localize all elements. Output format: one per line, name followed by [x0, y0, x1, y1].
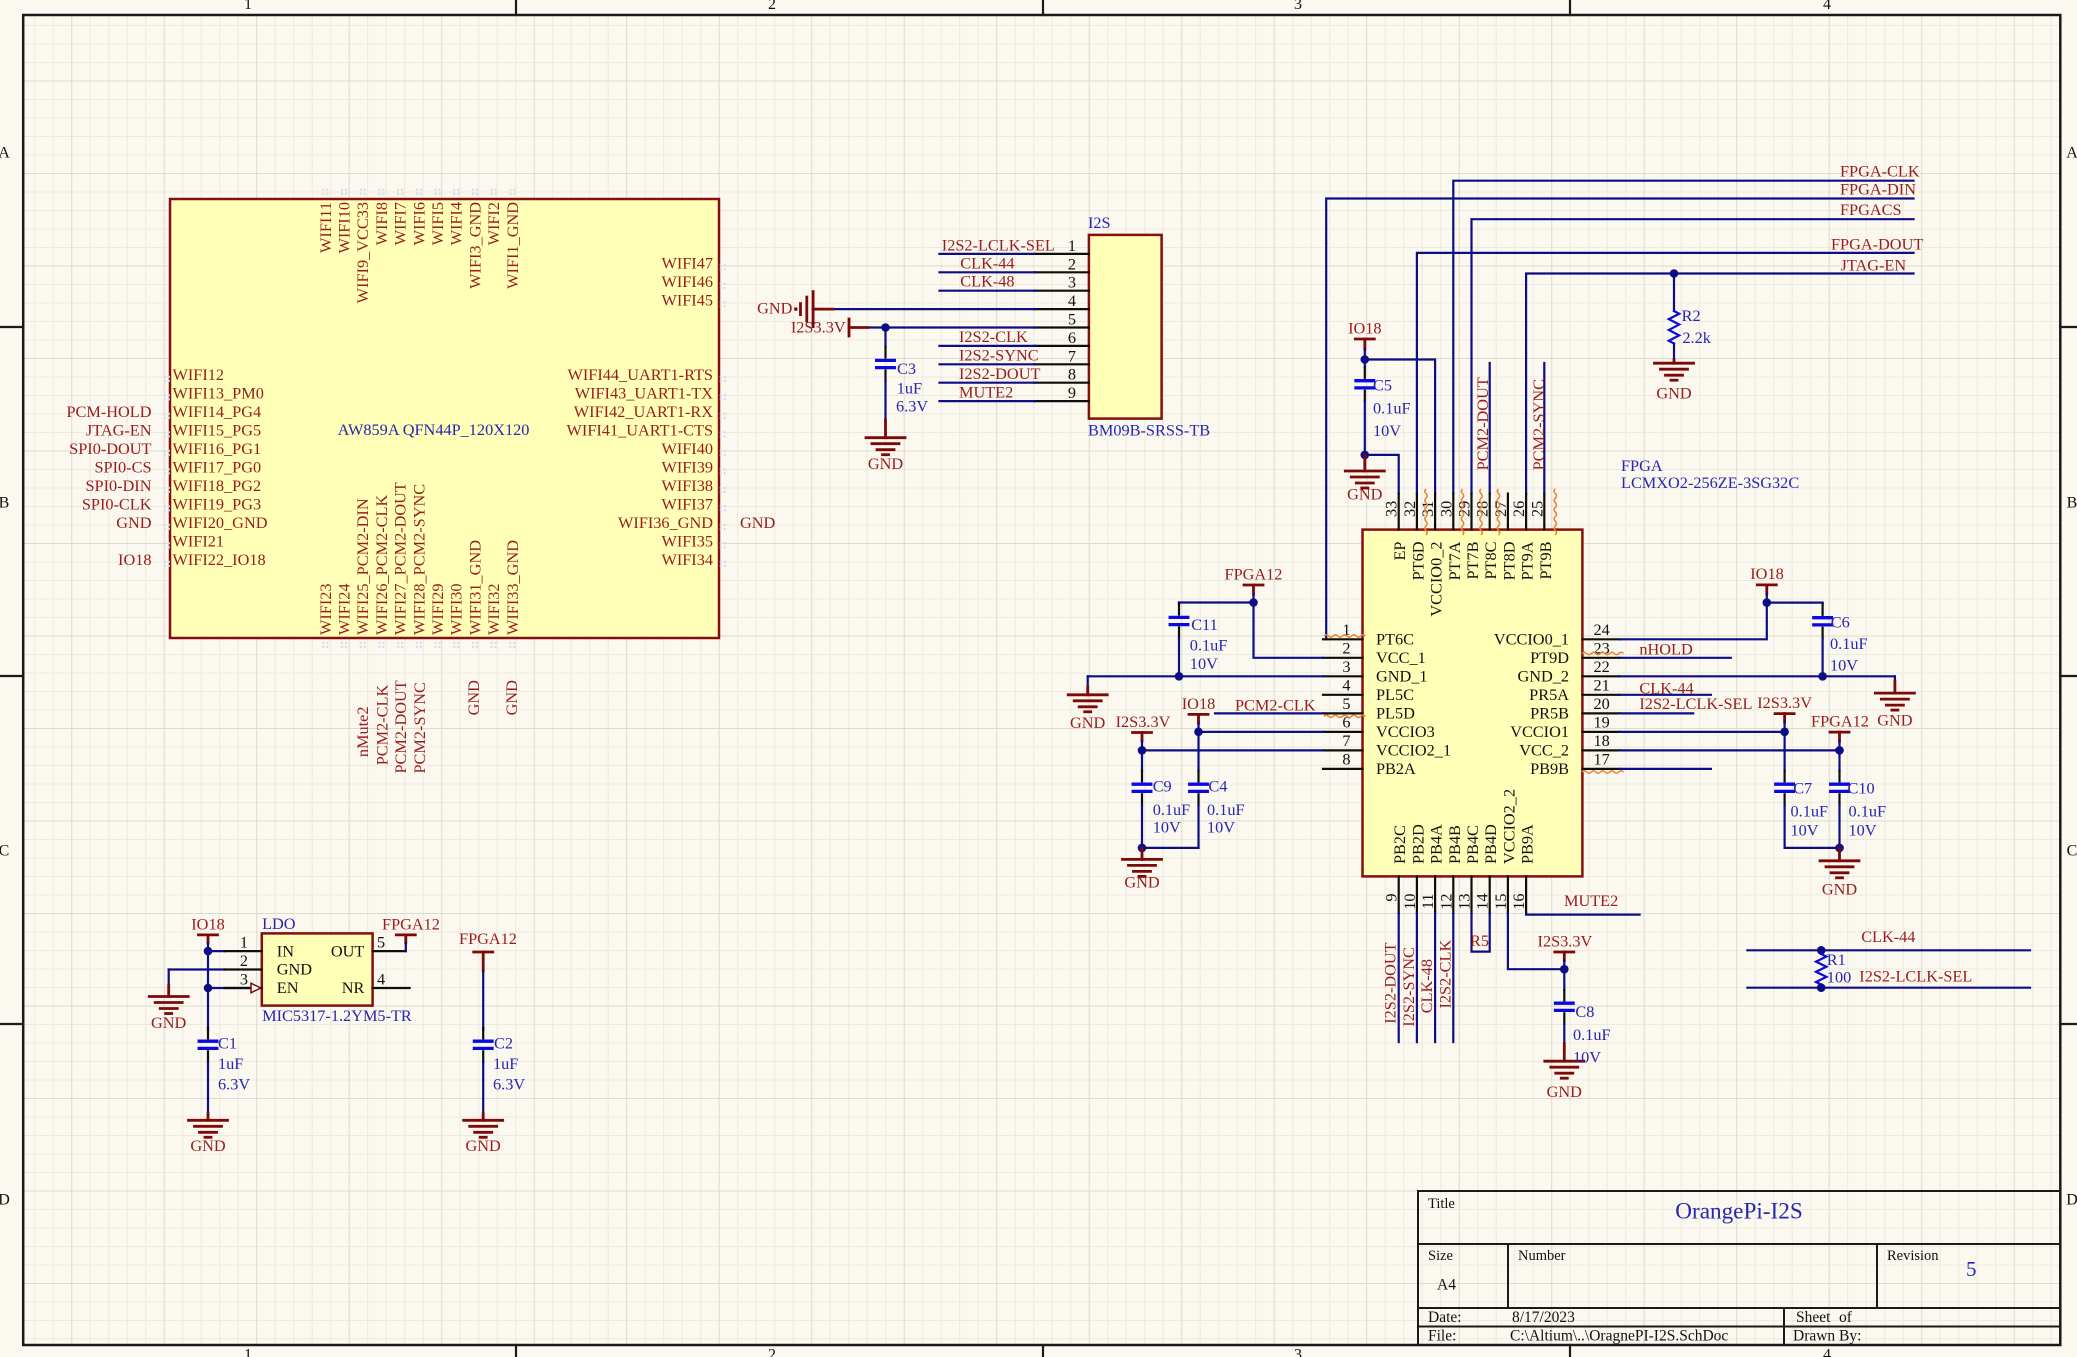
svg-text:10V: 10V: [1573, 1048, 1601, 1067]
svg-text:PT9B: PT9B: [1536, 541, 1555, 579]
svg-text:C5: C5: [1373, 376, 1392, 395]
svg-text:C3: C3: [897, 359, 916, 378]
svg-text:9: 9: [1068, 383, 1076, 402]
svg-text:0.1uF: 0.1uF: [1373, 399, 1411, 418]
svg-text:CLK-44: CLK-44: [960, 253, 1014, 272]
svg-text:PL5C: PL5C: [1376, 685, 1414, 704]
svg-text:1uF: 1uF: [218, 1054, 243, 1073]
svg-text:0.1uF: 0.1uF: [1190, 636, 1228, 655]
svg-text:I2S2-DOUT: I2S2-DOUT: [1381, 942, 1400, 1023]
svg-text:FPGA-DIN: FPGA-DIN: [1840, 179, 1916, 198]
svg-text:PCM2-DOUT: PCM2-DOUT: [1473, 377, 1492, 470]
svg-text:1uF: 1uF: [493, 1054, 518, 1073]
svg-text:26: 26: [1509, 501, 1528, 517]
svg-text:GND: GND: [116, 513, 152, 532]
svg-text:C6: C6: [1831, 613, 1850, 632]
svg-text:WIFI46: WIFI46: [661, 272, 713, 291]
svg-text:3: 3: [240, 970, 248, 989]
svg-text:WIFI44_UART1-RTS: WIFI44_UART1-RTS: [568, 365, 713, 384]
svg-text:nHOLD: nHOLD: [1639, 639, 1693, 658]
svg-text:I2S3.3V: I2S3.3V: [1538, 932, 1593, 951]
svg-text:WIFI27_PCM2-DOUT: WIFI27_PCM2-DOUT: [391, 482, 410, 635]
svg-text:WIFI6: WIFI6: [409, 202, 428, 245]
svg-text:30: 30: [1436, 501, 1455, 517]
svg-text:I2S3.3V: I2S3.3V: [1757, 693, 1812, 712]
svg-text:SPI0-DOUT: SPI0-DOUT: [69, 439, 151, 458]
svg-text:R5: R5: [1470, 931, 1489, 950]
svg-text:WIFI47: WIFI47: [661, 254, 713, 273]
svg-text:10V: 10V: [1849, 821, 1877, 840]
svg-text:1: 1: [1068, 236, 1076, 255]
svg-text:6.3V: 6.3V: [896, 397, 928, 416]
svg-text:C4: C4: [1208, 777, 1227, 796]
svg-text:GND: GND: [151, 1013, 187, 1032]
svg-text:MUTE2: MUTE2: [1564, 891, 1618, 910]
svg-text:1: 1: [244, 1347, 252, 1357]
svg-text:PCM2-CLK: PCM2-CLK: [373, 685, 392, 766]
svg-text:6: 6: [1068, 328, 1076, 347]
svg-text:A: A: [2066, 145, 2077, 162]
svg-text:IO18: IO18: [1750, 564, 1783, 583]
svg-text:5: 5: [377, 933, 385, 952]
svg-text:GND: GND: [740, 513, 776, 532]
svg-text:33: 33: [1382, 501, 1401, 517]
svg-text:R1: R1: [1827, 950, 1846, 969]
svg-text:WIFI5: WIFI5: [428, 202, 447, 245]
svg-text:Revision: Revision: [1887, 1248, 1939, 1264]
svg-text:nMute2: nMute2: [353, 706, 372, 757]
svg-text:1uF: 1uF: [897, 378, 922, 397]
svg-text:2: 2: [1068, 254, 1076, 273]
svg-text:CLK-44: CLK-44: [1861, 927, 1915, 946]
svg-text:File:: File:: [1428, 1328, 1456, 1345]
svg-text:GND: GND: [1347, 485, 1383, 504]
svg-text:IO18: IO18: [1348, 319, 1381, 338]
svg-text:WIFI39: WIFI39: [661, 458, 713, 477]
svg-text:PB4A: PB4A: [1427, 824, 1446, 864]
svg-text:PT8C: PT8C: [1481, 542, 1500, 580]
svg-text:8/17/2023: 8/17/2023: [1512, 1309, 1575, 1326]
svg-text:C8: C8: [1575, 1002, 1594, 1021]
svg-text:I2S2-SYNC: I2S2-SYNC: [1399, 947, 1418, 1027]
svg-text:6.3V: 6.3V: [218, 1075, 250, 1094]
svg-text:C10: C10: [1848, 779, 1875, 798]
svg-text:Drawn By:: Drawn By:: [1793, 1328, 1861, 1345]
svg-text:JTAG-EN: JTAG-EN: [1841, 256, 1907, 275]
svg-text:GND: GND: [1877, 711, 1913, 730]
svg-text:B: B: [2067, 495, 2077, 512]
svg-text:8: 8: [1068, 365, 1076, 384]
svg-text:I2S2-SYNC: I2S2-SYNC: [959, 346, 1039, 365]
svg-text:LCMXO2-256ZE-3SG32C: LCMXO2-256ZE-3SG32C: [1621, 473, 1799, 492]
svg-text:PB9A: PB9A: [1518, 824, 1537, 864]
svg-text:10V: 10V: [1190, 654, 1218, 673]
svg-text:PCM2-SYNC: PCM2-SYNC: [1529, 379, 1548, 470]
svg-text:WIFI45: WIFI45: [661, 291, 713, 310]
svg-text:WIFI31_GND: WIFI31_GND: [465, 540, 484, 635]
svg-text:MUTE2: MUTE2: [959, 382, 1013, 401]
svg-text:SPI0-DIN: SPI0-DIN: [85, 476, 151, 495]
svg-text:0.1uF: 0.1uF: [1573, 1025, 1611, 1044]
svg-text:I2S3.3V: I2S3.3V: [791, 317, 846, 336]
svg-text:4: 4: [1823, 1347, 1831, 1357]
svg-text:WIFI26_PCM2-CLK: WIFI26_PCM2-CLK: [372, 495, 391, 635]
svg-text:PCM2-CLK: PCM2-CLK: [1235, 696, 1316, 715]
svg-text:4: 4: [1068, 291, 1076, 310]
svg-text:3: 3: [1068, 273, 1076, 292]
svg-text:A: A: [0, 145, 10, 162]
svg-text:16: 16: [1509, 894, 1528, 910]
svg-text:A4: A4: [1437, 1277, 1456, 1294]
svg-text:WIFI33_GND: WIFI33_GND: [503, 540, 522, 635]
svg-text:WIFI37: WIFI37: [661, 495, 713, 514]
svg-text:2: 2: [1342, 638, 1350, 657]
svg-text:PT9D: PT9D: [1530, 648, 1569, 667]
svg-text:FPGA12: FPGA12: [382, 915, 440, 934]
svg-text:11: 11: [1418, 894, 1437, 910]
svg-text:PL5D: PL5D: [1376, 704, 1415, 723]
svg-text:22: 22: [1594, 657, 1610, 676]
svg-text:of: of: [1839, 1309, 1853, 1326]
svg-text:WIFI12: WIFI12: [173, 365, 225, 384]
svg-text:FPGACS: FPGACS: [1840, 200, 1902, 219]
svg-text:5: 5: [1342, 694, 1350, 713]
svg-text:WIFI9_VCC33: WIFI9_VCC33: [353, 202, 372, 303]
svg-text:3: 3: [1342, 657, 1350, 676]
svg-text:GND: GND: [1547, 1082, 1583, 1101]
svg-text:I2S2-CLK: I2S2-CLK: [1435, 940, 1454, 1009]
svg-text:EN: EN: [277, 978, 299, 997]
svg-text:10V: 10V: [1153, 818, 1181, 837]
svg-text:WIFI11: WIFI11: [316, 202, 335, 253]
svg-text:WIFI20_GND: WIFI20_GND: [173, 513, 268, 532]
svg-text:PCM-HOLD: PCM-HOLD: [66, 402, 151, 421]
svg-text:2: 2: [768, 1347, 776, 1357]
svg-text:7: 7: [1068, 346, 1076, 365]
svg-text:PB4C: PB4C: [1463, 825, 1482, 864]
svg-text:PB9B: PB9B: [1530, 759, 1569, 778]
svg-text:0.1uF: 0.1uF: [1849, 802, 1887, 821]
svg-text:Sheet: Sheet: [1796, 1309, 1831, 1326]
svg-text:GND_2: GND_2: [1517, 667, 1569, 686]
svg-text:0.1uF: 0.1uF: [1153, 800, 1191, 819]
svg-text:9: 9: [1382, 894, 1401, 902]
svg-text:0.1uF: 0.1uF: [1830, 634, 1868, 653]
svg-text:8: 8: [1342, 749, 1350, 768]
svg-text:WIFI36_GND: WIFI36_GND: [618, 513, 713, 532]
svg-text:10V: 10V: [1791, 821, 1819, 840]
svg-text:WIFI16_PG1: WIFI16_PG1: [173, 439, 262, 458]
svg-text:EP: EP: [1390, 542, 1409, 561]
svg-text:WIFI19_PG3: WIFI19_PG3: [173, 495, 262, 514]
svg-text:GND: GND: [190, 1136, 226, 1155]
svg-text:2.2k: 2.2k: [1682, 328, 1711, 347]
svg-text:OrangePi-I2S: OrangePi-I2S: [1675, 1199, 1803, 1225]
svg-text:3: 3: [1294, 1347, 1302, 1357]
svg-text:Title: Title: [1428, 1196, 1455, 1212]
svg-text:20: 20: [1594, 694, 1610, 713]
svg-text:WIFI15_PG5: WIFI15_PG5: [173, 421, 262, 440]
svg-text:19: 19: [1594, 712, 1610, 731]
svg-text:PB4B: PB4B: [1445, 825, 1464, 864]
svg-text:I2S2-CLK: I2S2-CLK: [959, 327, 1028, 346]
svg-text:WIFI42_UART1-RX: WIFI42_UART1-RX: [574, 402, 713, 421]
svg-text:10V: 10V: [1373, 421, 1401, 440]
svg-text:WIFI25_PCM2-DIN: WIFI25_PCM2-DIN: [353, 498, 372, 635]
svg-text:PT6D: PT6D: [1408, 541, 1427, 580]
svg-text:AW859A QFN44P_120X120: AW859A QFN44P_120X120: [338, 420, 530, 439]
svg-text:C9: C9: [1153, 777, 1172, 796]
svg-text:10V: 10V: [1207, 818, 1235, 837]
svg-text:VCC_2: VCC_2: [1519, 741, 1569, 760]
svg-text:3: 3: [1294, 0, 1302, 13]
svg-text:VCCIO0_1: VCCIO0_1: [1494, 630, 1569, 649]
svg-text:FPGA12: FPGA12: [1811, 712, 1869, 731]
svg-text:PCM2-SYNC: PCM2-SYNC: [410, 682, 429, 773]
svg-text:VCCIO1: VCCIO1: [1510, 722, 1569, 741]
svg-text:VCCIO0_2: VCCIO0_2: [1427, 542, 1446, 617]
svg-text:17: 17: [1594, 749, 1610, 768]
svg-text:WIFI34: WIFI34: [661, 550, 713, 569]
svg-text:C: C: [2067, 843, 2077, 860]
svg-text:VCCIO3: VCCIO3: [1376, 722, 1435, 741]
svg-text:6.3V: 6.3V: [493, 1075, 525, 1094]
svg-text:WIFI21: WIFI21: [173, 532, 225, 551]
svg-text:SPI0-CLK: SPI0-CLK: [82, 495, 152, 514]
svg-text:PT7A: PT7A: [1445, 541, 1464, 580]
svg-text:100: 100: [1827, 967, 1851, 986]
svg-text:WIFI41_UART1-CTS: WIFI41_UART1-CTS: [567, 421, 713, 440]
svg-text:I2S3.3V: I2S3.3V: [1116, 712, 1171, 731]
svg-text:IN: IN: [277, 941, 294, 960]
svg-text:GND: GND: [1822, 880, 1858, 899]
svg-text:2: 2: [240, 951, 248, 970]
svg-text:4: 4: [1342, 675, 1350, 694]
svg-text:25: 25: [1527, 501, 1546, 517]
svg-text:C11: C11: [1191, 615, 1218, 634]
svg-text:SPI0-CS: SPI0-CS: [94, 458, 151, 477]
svg-text:IO18: IO18: [191, 914, 224, 933]
svg-text:5: 5: [1068, 310, 1076, 329]
svg-text:13: 13: [1455, 894, 1474, 910]
svg-text:GND: GND: [466, 1136, 502, 1155]
svg-text:OUT: OUT: [331, 941, 365, 960]
svg-text:C1: C1: [218, 1034, 237, 1053]
svg-text:GND_1: GND_1: [1376, 667, 1428, 686]
svg-text:GND: GND: [464, 680, 483, 716]
svg-text:WIFI17_PG0: WIFI17_PG0: [173, 458, 262, 477]
svg-text:Date:: Date:: [1428, 1309, 1462, 1326]
svg-text:WIFI7: WIFI7: [391, 202, 410, 245]
svg-text:B: B: [0, 495, 9, 512]
svg-text:14: 14: [1473, 894, 1492, 910]
svg-text:FPGA-DOUT: FPGA-DOUT: [1831, 235, 1923, 254]
svg-text:WIFI8: WIFI8: [372, 202, 391, 245]
svg-text:WIFI1_GND: WIFI1_GND: [503, 202, 522, 289]
svg-text:4: 4: [377, 970, 385, 989]
svg-text:WIFI3_GND: WIFI3_GND: [465, 202, 484, 289]
svg-text:CLK-48: CLK-48: [1417, 959, 1436, 1013]
svg-text:PT7B: PT7B: [1463, 541, 1482, 579]
svg-text:GND: GND: [868, 454, 904, 473]
svg-text:WIFI38: WIFI38: [661, 476, 713, 495]
svg-text:MIC5317-1.2YM5-TR: MIC5317-1.2YM5-TR: [262, 1006, 412, 1025]
svg-text:PT9A: PT9A: [1518, 541, 1537, 580]
svg-text:IO18: IO18: [118, 550, 151, 569]
svg-text:FPGA-CLK: FPGA-CLK: [1840, 162, 1920, 181]
svg-text:GND: GND: [1070, 713, 1106, 732]
svg-text:PCM2-DOUT: PCM2-DOUT: [391, 680, 410, 773]
svg-text:I2S2-LCLK-SEL: I2S2-LCLK-SEL: [1639, 694, 1752, 713]
svg-text:D: D: [0, 1192, 10, 1209]
svg-text:Number: Number: [1518, 1248, 1566, 1264]
svg-text:7: 7: [1342, 731, 1350, 750]
svg-text:GND: GND: [757, 298, 793, 317]
svg-text:WIFI18_PG2: WIFI18_PG2: [173, 476, 262, 495]
svg-text:WIFI43_UART1-TX: WIFI43_UART1-TX: [575, 384, 714, 403]
svg-text:21: 21: [1594, 675, 1610, 694]
svg-text:WIFI23: WIFI23: [316, 583, 335, 635]
svg-text:PB2D: PB2D: [1408, 824, 1427, 864]
svg-text:LDO: LDO: [262, 914, 296, 933]
svg-text:VCCIO2_2: VCCIO2_2: [1499, 789, 1518, 864]
svg-text:BM09B-SRSS-TB: BM09B-SRSS-TB: [1088, 420, 1210, 439]
svg-text:GND: GND: [1656, 384, 1692, 403]
svg-text:WIFI29: WIFI29: [428, 583, 447, 635]
svg-text:WIFI14_PG4: WIFI14_PG4: [173, 402, 262, 421]
svg-text:WIFI32: WIFI32: [484, 583, 503, 635]
svg-text:WIFI30: WIFI30: [447, 583, 466, 635]
svg-text:I2S2-LCLK-SEL: I2S2-LCLK-SEL: [942, 235, 1055, 254]
svg-text:VCC_1: VCC_1: [1376, 648, 1426, 667]
svg-text:C7: C7: [1793, 779, 1812, 798]
svg-text:FPGA12: FPGA12: [459, 929, 517, 948]
svg-text:VCCIO2_1: VCCIO2_1: [1376, 741, 1451, 760]
svg-text:GND: GND: [502, 680, 521, 716]
svg-text:0.1uF: 0.1uF: [1207, 800, 1245, 819]
svg-text:C: C: [0, 843, 9, 860]
svg-text:0.1uF: 0.1uF: [1791, 802, 1829, 821]
svg-text:18: 18: [1594, 731, 1610, 750]
svg-text:C2: C2: [494, 1034, 513, 1053]
svg-text:4: 4: [1823, 0, 1831, 13]
svg-text:FPGA12: FPGA12: [1225, 565, 1283, 584]
svg-text:10: 10: [1400, 894, 1419, 910]
svg-text:12: 12: [1436, 894, 1455, 910]
svg-text:PR5A: PR5A: [1529, 685, 1569, 704]
svg-text:1: 1: [244, 0, 252, 13]
svg-text:PR5B: PR5B: [1530, 704, 1569, 723]
svg-text:PB2C: PB2C: [1390, 825, 1409, 864]
svg-text:I2S: I2S: [1088, 213, 1111, 232]
svg-text:10V: 10V: [1830, 656, 1858, 675]
svg-text:WIFI35: WIFI35: [661, 532, 713, 551]
svg-text:PB2A: PB2A: [1376, 759, 1416, 778]
svg-text:WIFI10: WIFI10: [335, 202, 354, 254]
svg-text:NR: NR: [342, 978, 365, 997]
svg-text:WIFI40: WIFI40: [661, 439, 713, 458]
svg-text:24: 24: [1594, 620, 1610, 639]
svg-text:WIFI28_PCM2-SYNC: WIFI28_PCM2-SYNC: [409, 484, 428, 635]
svg-text:WIFI2: WIFI2: [484, 202, 503, 245]
svg-text:IO18: IO18: [1182, 694, 1215, 713]
svg-text:I2S2-LCLK-SEL: I2S2-LCLK-SEL: [1859, 967, 1972, 986]
svg-text:PT8D: PT8D: [1499, 541, 1518, 580]
svg-text:R2: R2: [1682, 306, 1701, 325]
svg-text:Size: Size: [1428, 1248, 1453, 1264]
svg-text:CLK-48: CLK-48: [960, 272, 1014, 291]
svg-text:PT6C: PT6C: [1376, 630, 1414, 649]
svg-text:PB4D: PB4D: [1481, 824, 1500, 864]
svg-text:D: D: [2066, 1192, 2077, 1209]
svg-text:15: 15: [1491, 894, 1510, 910]
svg-text:WIFI24: WIFI24: [335, 583, 354, 635]
svg-text:32: 32: [1400, 501, 1419, 517]
svg-text:I2S2-DOUT: I2S2-DOUT: [959, 364, 1040, 383]
svg-text:GND: GND: [277, 960, 313, 979]
svg-text:GND: GND: [1124, 873, 1160, 892]
svg-text:2: 2: [768, 0, 776, 13]
svg-text:JTAG-EN: JTAG-EN: [86, 421, 152, 440]
svg-text:WIFI22_IO18: WIFI22_IO18: [173, 550, 266, 569]
svg-text:1: 1: [240, 933, 248, 952]
svg-text:C:\Altium\..\OragnePI-I2S.SchD: C:\Altium\..\OragnePI-I2S.SchDoc: [1510, 1328, 1728, 1345]
svg-text:WIFI4: WIFI4: [447, 202, 466, 245]
svg-text:5: 5: [1966, 1257, 1977, 1281]
svg-text:WIFI13_PM0: WIFI13_PM0: [173, 384, 264, 403]
